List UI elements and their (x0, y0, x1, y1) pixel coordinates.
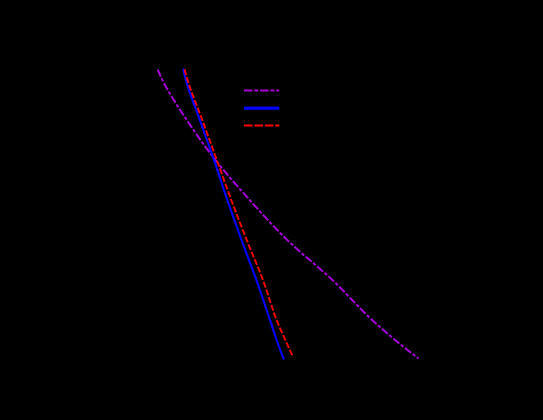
magenta dash-dot curve (158, 70, 419, 359)
legend red dashed sample (244, 125, 279, 127)
legend magenta dash-dot sample (244, 90, 279, 92)
legend blue solid sample (244, 107, 279, 110)
blue solid curve (183, 69, 284, 360)
red dashed curve (185, 69, 294, 357)
